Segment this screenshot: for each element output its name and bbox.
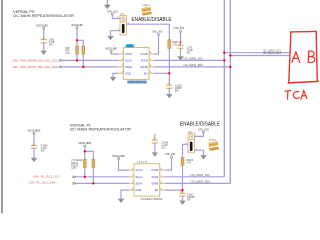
window edge [1,0,2,214]
resistor R96 [76,46,79,54]
svg-text:SJ4B14: SJ4B14 [209,140,217,142]
wire [77,40,83,46]
wire [112,15,120,19]
svg-text:50V: 50V [187,199,192,201]
svg-text:SCLB: SCLB [152,175,159,179]
svg-text:SDAB: SDAB [140,65,147,69]
pin 6 SDAB [140,65,154,69]
junction [76,59,78,61]
capacitor C3147 [180,192,186,197]
svg-text:50V: 50V [187,53,192,55]
svg-text:ENABLE/DISABLE: ENABLE/DISABLE [132,17,172,23]
svg-text:SJ4B13: SJ4B13 [142,5,150,7]
C3146 value label [41,146,48,153]
red annotation box [289,31,318,83]
svg-text:4.7K: 4.7K [186,162,191,164]
svg-text:VCCO_HDIO: VCCO_HDIO [28,128,41,132]
wire SCLB [155,59,225,61]
svg-text:SDAA: SDAA [125,65,132,69]
svg-text:UTIL_3V3: UTIL_3V3 [198,127,209,131]
svg-text:I2C_MAIN_SDA: I2C_MAIN_SDA [184,63,204,67]
svg-text:EN: EN [155,188,159,192]
svg-text:GND: GND [125,71,131,75]
svg-text:4.7K: 4.7K [71,168,76,170]
off-sheet arrow [59,66,63,68]
ground (C3148) [152,153,158,157]
svg-text:50V: 50V [162,148,167,150]
svg-text:VCCA: VCCA [125,52,132,56]
junction [82,66,84,68]
wire [33,148,35,158]
C370 value label [187,48,194,55]
pin 1 VCCA [118,52,132,56]
svg-text:UTIL_3V3: UTIL_3V3 [165,152,176,156]
svg-text:I2C MAIN REPEATER/ISOLATOR: I2C MAIN REPEATER/ISOLATOR [13,13,74,18]
junction [92,182,94,184]
wire SCLB (U177) [165,176,224,178]
svg-text:TCA9517DGKR: TCA9517DGKR [141,197,163,201]
pin 5 EN (U177) [155,188,166,192]
svg-text:I2C_MAIN_SDA: I2C_MAIN_SDA [191,180,211,184]
junction [223,52,225,54]
wire I2C_MAIN_SCL vertical [223,0,225,177]
ground (top of sheet) [104,0,110,9]
ground (C3154) [166,94,172,98]
pin 8 VCCB (U177) [151,168,165,172]
junction [229,66,231,68]
resistor R3015 [92,159,95,167]
power UTIL_3V3 (J307 pin1) [107,9,118,15]
pin 1 VCCA (U177) [129,168,143,172]
R96 R97 value label [65,48,70,55]
junction EN [168,72,170,74]
header J307 [117,14,129,35]
junction [223,59,225,61]
svg-text:50V: 50V [49,45,54,47]
junction EN (PL) [181,189,183,191]
svg-text:VCCO_MIO: VCCO_MIO [36,24,48,28]
wire VCCB [155,35,159,54]
pin 3 SDAA [118,65,132,69]
wire [111,52,118,54]
ground [41,51,47,55]
wire EN vertical (PL) [182,166,184,194]
wire SDA to annotation [230,55,289,57]
R3016 value label [186,160,193,165]
part number TCA9517RSVR highlight [127,81,146,84]
svg-text:I2C_MAIN_SCL: I2C_MAIN_SCL [191,173,211,177]
svg-text:VCCO_HDIO: VCCO_HDIO [112,154,125,158]
wire VCCB (U177) [165,158,171,170]
power VCCO_HDIO (pullups) [78,141,91,147]
C3147 value label [187,194,196,201]
wire EN to pin5 [155,72,170,74]
svg-text:VCCB: VCCB [151,168,158,172]
wire SDAB [155,66,231,68]
svg-text:(3A) PL_I2C1_SDA: (3A) PL_I2C1_SDA [29,181,56,185]
ground (J315 pin3) [201,156,207,160]
off-sheet arrow [59,59,63,61]
wire [180,32,182,45]
svg-text:SCLB: SCLB [141,59,148,63]
wire SCLA (PL) [76,176,128,178]
svg-text:SDAB: SDAB [151,182,158,186]
ground (J307 pin3) [108,36,114,40]
off-sheet arrow [72,176,76,178]
resistor R3016 [181,158,184,166]
annotation text TCA [285,91,307,100]
capacitor C361 [41,38,47,43]
svg-text:(3A) PL_I2C1_SCL: (3A) PL_I2C1_SCL [33,175,60,179]
capacitor C3154 [166,83,172,88]
svg-text:I2C_MAIN_SDA: I2C_MAIN_SDA [263,52,281,55]
junction [76,39,78,41]
resistor R3014 [83,159,86,167]
svg-text:I2C_MAIN_SCL: I2C_MAIN_SCL [184,57,204,61]
svg-text:VCCO_HDIO: VCCO_HDIO [78,141,91,145]
jumper icon SJ4B13 [142,5,152,15]
wire SCL to annotation [224,52,289,54]
wire [76,54,78,60]
wire [43,29,45,39]
annotation letter B [308,51,315,62]
power UTIL_3V3 (C370) [174,26,185,32]
junction [84,150,86,152]
power VCCO_MIO (U93 VCCA) [105,46,117,52]
wire EN from J315 pin2 [183,144,189,157]
svg-text:I2C MAIN REPEATER/ISOLATOR: I2C MAIN REPEATER/ISOLATOR [70,126,131,131]
pin 2 SCLA (U177) [129,175,143,179]
pin 4 GND [118,71,131,75]
pin 7 SCLB [141,59,155,63]
wire [182,196,184,201]
wire SDAA (PL) [76,182,128,184]
svg-text:UTIL_3V3: UTIL_3V3 [152,30,163,34]
wire J315 pin1 [194,133,203,136]
svg-text:SCLA: SCLA [125,59,132,63]
ground (C3147) [180,201,186,205]
wire [180,48,182,57]
svg-text:SCLA: SCLA [136,175,143,179]
ground (C370) [178,57,184,61]
power VCCO_HDIO (U177 VCCA) [112,154,125,160]
wire [154,143,156,153]
svg-text:VCCA: VCCA [136,168,143,172]
svg-text:UTIL_3V3: UTIL_3V3 [174,26,185,30]
wire [84,147,86,159]
wire [33,134,35,145]
jumper icon SJ4B14 [209,140,219,151]
resistor R97 [82,46,85,54]
svg-text:VCCB: VCCB [140,52,147,56]
header J315 [185,132,197,153]
svg-text:GND: GND [136,188,142,192]
pin 6 SDAB (U177) [151,182,165,186]
wire [76,29,78,46]
svg-text:VCCO_MIO: VCCO_MIO [71,23,83,27]
pin 7 SCLB (U177) [152,175,166,179]
wire [119,160,129,171]
annotation letter A [292,52,300,62]
wire J307 pin3 to ground [111,31,121,37]
power VCCO_MIO (C361) [36,24,48,30]
junction (C370 tap) [180,41,182,43]
svg-text:4.7K: 4.7K [65,53,70,55]
svg-text:50V: 50V [175,91,180,93]
off-sheet arrow [72,182,76,184]
power UTIL_3V3 (U177 VCCB) [165,152,176,158]
svg-text:4.7K: 4.7K [172,45,177,47]
junction [229,54,231,56]
wire I2C_MAIN_SDA vertical [229,0,231,183]
wire SDAA [62,66,118,68]
svg-text:(3A) PMC_MIO47_501_I2C1_SDA: (3A) PMC_MIO47_501_I2C1_SDA [13,65,58,69]
title VERSAL PS [13,9,74,18]
resistor R309 [168,40,171,49]
capacitor C3146 [31,144,37,148]
pin 2 SCLA [118,59,132,63]
junction [84,176,86,178]
R3014 R3015 value label [71,159,83,170]
ground (C3146) [31,158,37,162]
svg-text:2 PLACES:: 2 PLACES: [71,159,83,162]
title VERSAL PL [70,122,131,131]
R309 value label [172,42,178,47]
svg-text:50V: 50V [41,151,46,153]
power VCCO_MIO (pullups) [71,23,83,29]
pin 8 VCCB [140,52,154,56]
wire EN from J307 pin2 [126,24,169,39]
ground (U93 GND) [113,73,118,77]
wire J315 pin3 to ground [194,150,203,155]
power UTIL_3V3 (J315 pin1) [198,127,209,133]
C3154 value label [175,86,182,93]
wire [43,43,45,51]
pin 5 EN [144,71,155,75]
ground (U177 GND) [121,190,129,199]
power VCCO_HDIO (C3146) [28,128,41,134]
IC U93 body [124,48,150,80]
pin 4 GND (U177) [129,188,142,192]
capacitor C3148 (VCCB decoupling) [154,134,156,140]
svg-text:SDAA: SDAA [136,182,143,186]
svg-text:(3A) PMC_MIO46_501_I2C1_SCL: (3A) PMC_MIO46_501_I2C1_SCL [13,58,59,62]
C361 value label [49,40,56,47]
wire [84,168,86,177]
wire [92,168,94,184]
svg-text:TCA9517RSVR: TCA9517RSVR [128,81,147,84]
wire EN to pin5 (U177) [165,189,182,191]
capacitor C370 [178,44,184,48]
wire [82,54,84,67]
svg-text:ENABLE/DISABLE: ENABLE/DISABLE [180,122,220,128]
wire SDAB (U177) [165,182,230,184]
wire [168,88,170,94]
wire [85,151,94,159]
wire SCLA [62,59,118,61]
pin 3 SDAA (U177) [129,182,143,186]
svg-text:EN: EN [144,71,148,75]
IC U93 designator highlight [126,44,134,48]
power UTIL_3V3 (U93 VCCB) [152,30,163,36]
IC U177 body [134,164,160,196]
C3148 value label [162,143,169,150]
wire EN vertical [168,49,170,86]
